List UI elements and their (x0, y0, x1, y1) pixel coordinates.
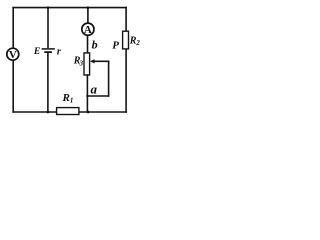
wire top rail (13, 7, 126, 9)
wire battery branch top lead (47, 8, 49, 48)
resistor R1 body (57, 108, 79, 115)
rheostat R3 body (84, 53, 90, 75)
wire left rail (12, 8, 14, 112)
junction dot top ammeter branch (87, 6, 90, 9)
svg-text:a: a (91, 81, 98, 96)
svg-text:E: E (33, 46, 40, 57)
wire R3 bottom lead to node a (86, 75, 88, 112)
wire bottom rail (13, 111, 126, 113)
R3 slider arrowhead (90, 59, 95, 63)
wire slider loop bottom to node a (87, 95, 108, 97)
junction dot top battery branch (47, 6, 50, 9)
resistor R2 body (123, 31, 129, 49)
svg-text:A: A (84, 24, 92, 36)
wire right rail (125, 8, 127, 112)
junction dot bottom node a branch (87, 111, 90, 114)
junction dot bottom battery branch (47, 111, 50, 114)
wire node b segment (ammeter to R3) (87, 35, 89, 53)
battery E positive plate (42, 48, 54, 50)
ammeter A circle (82, 23, 94, 35)
svg-text:P: P (112, 39, 119, 51)
wire battery branch bottom lead (47, 54, 49, 112)
wire ammeter branch upper lead (87, 8, 89, 24)
junction dot slider loop at node a (86, 95, 88, 97)
voltmeter V circle (7, 48, 19, 60)
wire R3 slider horizontal (93, 60, 109, 62)
svg-text:V: V (9, 49, 17, 61)
wire slider loop right vertical (108, 61, 110, 96)
battery E negative plate (45, 51, 51, 53)
svg-text:b: b (92, 37, 98, 51)
svg-text:r: r (57, 46, 61, 57)
